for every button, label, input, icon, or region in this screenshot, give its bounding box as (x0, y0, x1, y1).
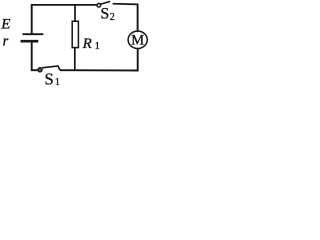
wire bottom horizontal left (31, 69, 38, 71)
svg-text:S: S (45, 69, 54, 88)
wire resistor branch lower (74, 48, 76, 71)
svg-text:S: S (100, 6, 109, 23)
svg-text:r: r (3, 34, 9, 50)
wire top-right horizontal (113, 3, 139, 6)
resistor R1 box (72, 21, 78, 47)
wire left vertical lower (31, 42, 33, 71)
svg-text:E: E (0, 16, 10, 32)
svg-text:R: R (82, 36, 92, 52)
wire left vertical upper (31, 4, 33, 34)
wire right vertical upper (137, 4, 139, 32)
svg-text:M: M (131, 32, 144, 48)
switch S2 blade (101, 1, 111, 4)
switch S1 pivot terminal (38, 68, 42, 72)
switch S2 pivot terminal (97, 4, 101, 8)
wire resistor branch upper (74, 4, 76, 21)
battery positive plate (23, 33, 44, 35)
motor M circle (128, 31, 147, 48)
svg-text:1: 1 (95, 41, 100, 52)
svg-text:1: 1 (55, 77, 60, 88)
svg-text:2: 2 (110, 12, 115, 23)
switch S1 blade (42, 66, 60, 70)
wire bottom horizontal right (60, 69, 139, 71)
battery negative plate (21, 40, 39, 43)
wire top-left horizontal (31, 4, 97, 6)
wire right vertical lower (137, 49, 139, 71)
